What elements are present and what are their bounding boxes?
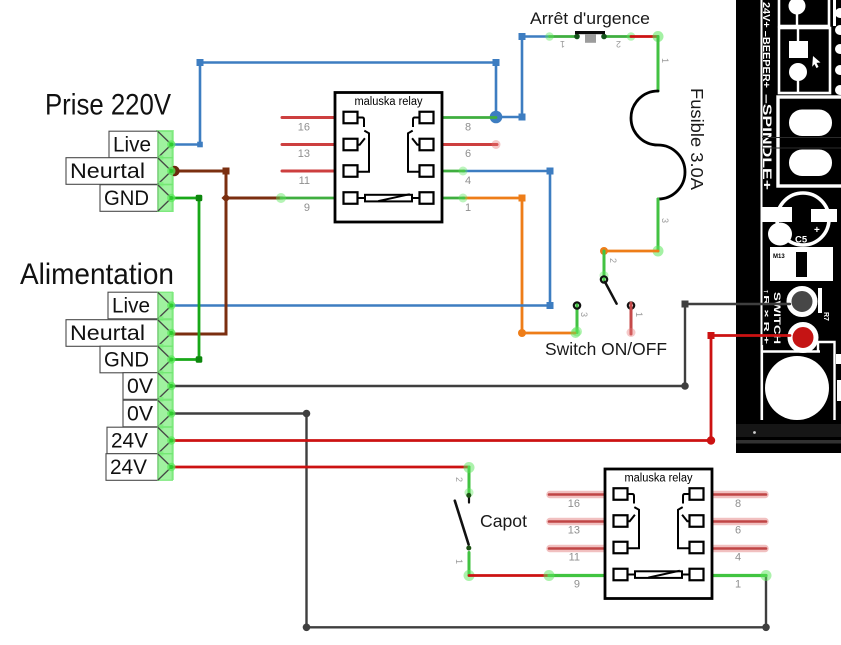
- connector J2 Alimentation highlight band: [156, 292, 174, 480]
- junction big blue node at relay1 pin8 (496,117): [490, 111, 503, 124]
- svg-text:C5: C5: [795, 235, 808, 246]
- pin Live box: [109, 131, 176, 160]
- node gray dot (306.5,413.5): [303, 410, 311, 418]
- svg-text:Neurtal: Neurtal: [70, 160, 145, 183]
- pcb spindle terminal block: [762, 97, 841, 186]
- svg-text:Alimentation: Alimentation: [20, 258, 174, 291]
- svg-text:1: 1: [634, 312, 644, 317]
- svg-text:3: 3: [660, 218, 670, 223]
- relay U2 maluska relay (bottom): [568, 469, 741, 599]
- node glow (658,36.5): [653, 31, 664, 42]
- cursor arrow mark: [812, 56, 820, 68]
- wire green stub S2 pin2: [603, 251, 606, 281]
- svg-text:Fusible 3.0A: Fusible 3.0A: [687, 88, 707, 190]
- wire brown Neutral220 net: [172, 171, 226, 334]
- svg-text:GND: GND: [104, 187, 149, 210]
- svg-text:Arrêt d'urgence: Arrêt d'urgence: [530, 9, 650, 28]
- wire gray 0V#2 to relay2 pin1: [172, 414, 766, 628]
- node big brown dot at Neutral 220V tip: [169, 166, 179, 176]
- pcb white block with dark slot: [770, 247, 833, 281]
- svg-text:2: 2: [616, 39, 621, 49]
- pcb gray push button: [789, 289, 815, 315]
- wire green GND220 to GND(Alim): [172, 198, 199, 360]
- pin Live box: [108, 292, 176, 321]
- wire green stub S3 pin2: [468, 467, 471, 494]
- wire green estop pin1 lead: [550, 35, 578, 38]
- junction square blue (550,171): [547, 168, 554, 175]
- svg-text:3: 3: [579, 312, 589, 317]
- pcb right edge pad circles: [833, 0, 841, 95]
- node glow (575,333): [571, 328, 581, 338]
- wire green estop pin2 lead: [604, 35, 631, 38]
- pin Neurtal box: [66, 320, 176, 349]
- relay2 pink-glow stubs pins 16,13,11: [550, 495, 765, 549]
- svg-text:2: 2: [454, 477, 464, 482]
- relay U1 maluska relay (top): [298, 93, 471, 223]
- svg-text:Capot: Capot: [480, 511, 527, 531]
- pin 0V box: [123, 400, 176, 429]
- wire green stub S2 pin3: [576, 303, 579, 333]
- node gray dot (306.5,628): [303, 624, 311, 632]
- pin Neurtal box: [66, 158, 176, 187]
- svg-text:1: 1: [560, 39, 565, 49]
- wire red capot to relay2 pin9: [469, 574, 549, 577]
- fuse F1 Fusible 3.0A: [631, 91, 685, 199]
- wire net LIVE220 blue: Live(220V) to emergency stop: [172, 63, 496, 145]
- relay1 right red stub pin6: [442, 143, 497, 146]
- switch S3 Capot: [454, 462, 475, 581]
- wire red 24V#1 to PCB button: [172, 336, 790, 441]
- relay1 left red stub pin16: [282, 116, 335, 119]
- pcb red push button: [790, 325, 816, 351]
- pcb bottom dark strips: [736, 424, 841, 437]
- pin 24V box: [107, 427, 176, 456]
- relay1 left red stub pin13: [282, 143, 335, 146]
- node glow (549.5,36.5): [545, 32, 554, 41]
- svg-text:R7: R7: [822, 312, 829, 321]
- pcb capacitor C5: [762, 193, 837, 246]
- junction square node blue (522,36.5): [519, 33, 526, 40]
- wire green relay2 pin1 lead: [711, 574, 766, 577]
- node gray dot (685,386): [681, 382, 689, 390]
- svg-text:1: 1: [454, 559, 464, 564]
- svg-text:24V: 24V: [110, 456, 147, 479]
- svg-text:Switch ON/OFF: Switch ON/OFF: [545, 339, 667, 359]
- wire gray 0V#1 to PCB switch: [172, 304, 790, 386]
- svg-text:Prise 220V: Prise 220V: [45, 89, 171, 122]
- svg-text:24V+ –BEEPER+: 24V+ –BEEPER+: [760, 2, 772, 88]
- node orange dot (604,251): [600, 247, 608, 255]
- wire green stub S3 pin1: [468, 553, 471, 576]
- node gray dot (766,628): [762, 624, 770, 632]
- node orange dot (522,333): [518, 329, 526, 337]
- wire blue Live(Alim) to relay1 pin4: [172, 171, 550, 306]
- pcb board edge trace: [761, 0, 763, 420]
- wire red estop pin2 to fuse corner: [631, 35, 658, 38]
- pin 24V box: [106, 454, 176, 481]
- svg-text:1: 1: [660, 58, 670, 63]
- wire brown to relay1 pin9: [226, 197, 282, 200]
- junction square node blue (200,62.5): [197, 59, 204, 66]
- svg-text:2: 2: [608, 258, 618, 263]
- node glow (631,36.5): [627, 32, 636, 41]
- node glow (281,198): [276, 193, 286, 203]
- node red dot (711,440.5): [707, 436, 715, 444]
- svg-text:Neurtal: Neurtal: [70, 322, 145, 345]
- wire green relay1 pin9 lead: [281, 197, 335, 200]
- wire orange fuse to switch S2: [604, 250, 658, 253]
- wire green stub relay1 pin4: [442, 170, 464, 173]
- junction square brown (226,171): [223, 168, 230, 175]
- svg-text:M13: M13: [773, 254, 785, 260]
- connector J1 Prise 220V: [45, 89, 176, 212]
- switch S2 ON/OFF: [572, 251, 644, 337]
- pcb bottom white box + big circle: [762, 342, 841, 420]
- junction square gray (685,304): [682, 301, 689, 308]
- svg-text:Live: Live: [112, 295, 150, 318]
- pcb connector block 2: [779, 28, 830, 93]
- junction square node blue (496,62.5): [493, 59, 500, 66]
- wire green fuse top lead pin1: [657, 37, 660, 92]
- connector J1 Prise 220V highlight band: [156, 130, 174, 212]
- svg-text:0V: 0V: [127, 375, 153, 398]
- pin GND box: [100, 346, 176, 375]
- junction square orange (522,198): [519, 195, 526, 202]
- wire net LIVE220 blue: junction to estop pin1: [496, 37, 549, 118]
- svg-text:–SPINDLE+: –SPINDLE+: [760, 94, 774, 190]
- wire orange relay1 pin1 to S2 pin3: [463, 198, 575, 333]
- junction square node blue (522,117): [519, 114, 526, 121]
- svg-text:GND: GND: [104, 349, 149, 372]
- junction square green (199,359.5): [196, 356, 203, 363]
- connector J2 Alimentation: [20, 258, 176, 480]
- pcb connector block 1: [779, 0, 829, 26]
- node glow (658,251): [653, 246, 664, 257]
- svg-text:Live: Live: [113, 134, 151, 157]
- wire red stub S2 pin1: [630, 303, 633, 334]
- wire green relay2 pin9 lead: [549, 574, 605, 577]
- svg-text:+: +: [814, 225, 820, 236]
- svg-text:24V: 24V: [111, 430, 148, 453]
- wire green fuse bottom lead pin3: [657, 199, 660, 251]
- junction diamond brown (226,198): [221, 193, 230, 202]
- svg-text:0V: 0V: [127, 403, 153, 426]
- pin 0V box: [123, 373, 176, 402]
- emergency stop switch S1 Arret d'urgence: [560, 31, 621, 49]
- pin GND box: [100, 185, 176, 212]
- wire red 24V#2 to capot switch: [172, 466, 469, 469]
- wire green stub relay1 pin1: [442, 197, 464, 200]
- junction square red (711,335.5): [708, 332, 715, 339]
- junction square green (199,198): [196, 195, 203, 202]
- junction square blue (550,305.5): [547, 302, 554, 309]
- wire green stub relay1 pin 8: [442, 116, 496, 119]
- relay1 left red stub pin11: [282, 170, 335, 173]
- PCB module photo (grbl board, thresholded B/W): [736, 0, 841, 453]
